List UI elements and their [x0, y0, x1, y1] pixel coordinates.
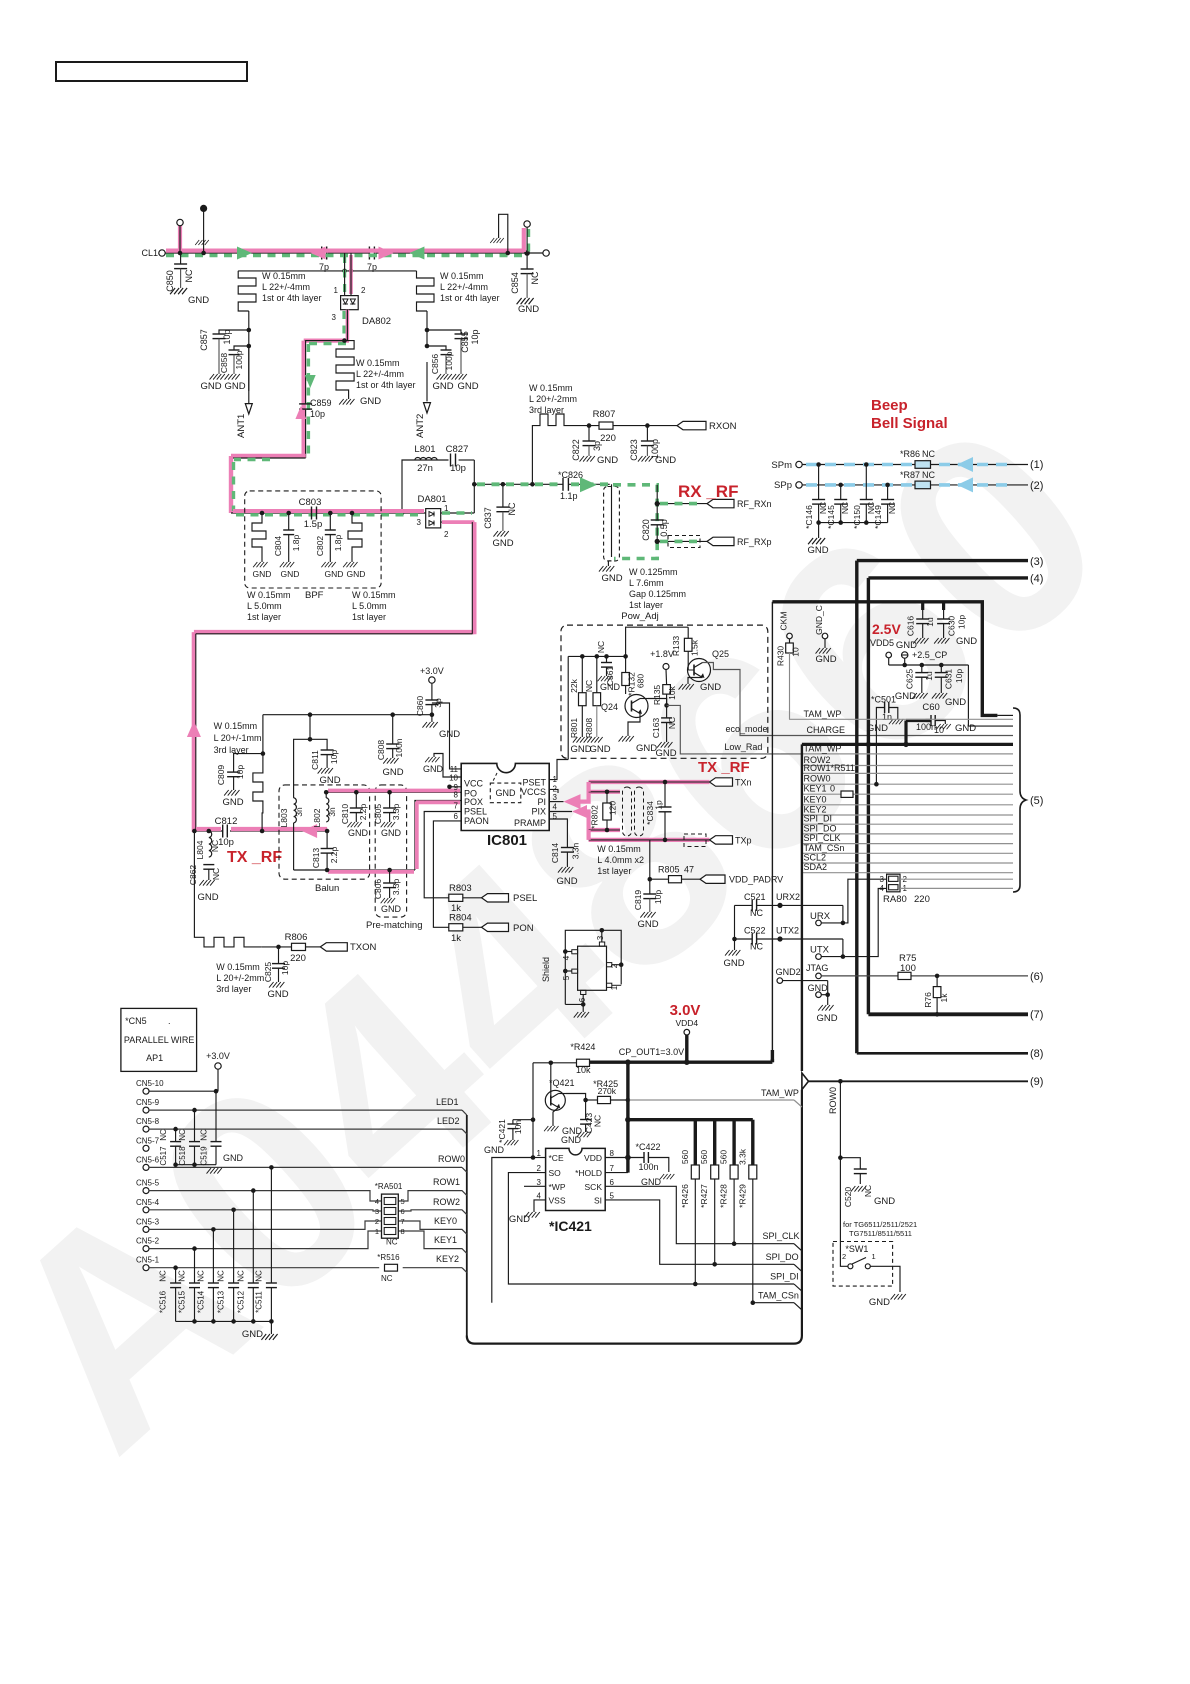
svg-text:C519: C519 — [200, 1146, 209, 1166]
title box — [56, 62, 247, 81]
svg-text:TX _RF: TX _RF — [227, 849, 282, 866]
svg-text:Q24: Q24 — [601, 702, 618, 712]
svg-text:*C515: *C515 — [178, 1290, 187, 1313]
wire IC421 pin1 — [533, 1157, 546, 1159]
ic IC421 — [546, 1148, 606, 1210]
svg-text:L804: L804 — [195, 840, 205, 859]
svg-text:8: 8 — [610, 1149, 615, 1158]
wire SW1 to gnd — [870, 1266, 900, 1292]
svg-text:Pow_Adj: Pow_Adj — [621, 611, 659, 622]
ic IC801 — [461, 763, 549, 830]
svg-text:C811: C811 — [310, 750, 320, 770]
svg-text:NC: NC — [596, 641, 606, 653]
wire SPI_CLK out — [734, 1243, 794, 1245]
svg-text:C837: C837 — [483, 507, 493, 529]
svg-text:3: 3 — [537, 1178, 542, 1187]
svg-text:C854: C854 — [510, 272, 520, 294]
svg-text:KEY0: KEY0 — [804, 794, 827, 804]
svg-text:PARALLEL WIRE: PARALLEL WIRE — [124, 1035, 195, 1045]
svg-text:PIX: PIX — [531, 807, 546, 817]
svg-text:SPI_DI: SPI_DI — [804, 814, 833, 824]
svg-text:C812: C812 — [215, 816, 238, 827]
ground C522 — [734, 939, 736, 950]
wire RA80 out rows — [900, 878, 1013, 880]
capacitor C423 — [585, 1100, 587, 1120]
svg-text:ANT1: ANT1 — [236, 414, 247, 438]
svg-text:6: 6 — [401, 1207, 405, 1216]
resistor R808 — [595, 654, 600, 659]
svg-text:SPI_CLK: SPI_CLK — [804, 833, 841, 843]
svg-text:560: 560 — [680, 1150, 690, 1164]
svg-text:TAM_WP: TAM_WP — [761, 1088, 799, 1098]
svg-text:1: 1 — [375, 1227, 379, 1236]
matching dashed TXp — [684, 834, 706, 847]
wire Q25 base — [687, 659, 689, 670]
svg-text:10p: 10p — [450, 463, 466, 474]
svg-text:R807: R807 — [593, 409, 616, 420]
svg-text:220: 220 — [290, 953, 306, 964]
svg-text:*CE: *CE — [549, 1153, 564, 1163]
wire PSET feed vertical — [567, 656, 569, 759]
svg-text:PI: PI — [537, 797, 546, 807]
svg-text:Shield: Shield — [541, 957, 551, 982]
svg-text:L 20+/-2mm: L 20+/-2mm — [216, 973, 264, 983]
svg-text:NC: NC — [593, 1115, 603, 1127]
wire URX net — [842, 905, 844, 923]
pad TXON — [320, 943, 347, 951]
svg-text:CKM: CKM — [779, 612, 789, 631]
node R76 — [935, 974, 940, 979]
svg-text:GND: GND — [867, 723, 888, 734]
wire IC421 pin7 — [605, 1172, 628, 1174]
svg-text:3n: 3n — [327, 807, 337, 817]
wire KEY0 row — [149, 1221, 382, 1229]
svg-text:CHARGE: CHARGE — [807, 725, 846, 735]
wire ROW1 row — [149, 1191, 382, 1201]
svg-text:Low_Rad: Low_Rad — [724, 742, 762, 752]
svg-text:SPp: SPp — [774, 480, 792, 491]
wire C811 L803 net — [294, 715, 310, 798]
svg-text:C805: C805 — [373, 804, 383, 825]
svg-text:6: 6 — [454, 812, 459, 821]
wire RX main green line — [474, 483, 563, 485]
svg-text:1st layer: 1st layer — [247, 612, 281, 622]
svg-text:KEY1: KEY1 — [434, 1235, 457, 1245]
svg-text:*R428: *R428 — [719, 1184, 729, 1208]
pad TXp — [710, 836, 733, 844]
svg-text:ROW0: ROW0 — [804, 774, 831, 784]
capacitor C820 — [656, 485, 658, 520]
capacitor C149 — [885, 483, 890, 488]
svg-text:C820: C820 — [641, 519, 651, 541]
svg-text:RF_RXn: RF_RXn — [737, 499, 772, 509]
wire PSET net — [549, 760, 568, 780]
via pad left — [178, 224, 182, 252]
svg-text:GND: GND — [360, 396, 381, 407]
svg-text:100p: 100p — [234, 350, 244, 369]
wire BPF line — [231, 512, 426, 514]
svg-text:C810: C810 — [340, 804, 350, 825]
svg-text:GND: GND — [723, 958, 744, 969]
wire thick 2.5V feed — [772, 602, 997, 716]
svg-text:GND: GND — [637, 919, 658, 930]
wire Q421 collector R425 — [559, 1093, 567, 1095]
svg-text:W 0.15mm: W 0.15mm — [597, 844, 641, 854]
svg-text:CN5-8: CN5-8 — [136, 1117, 160, 1126]
svg-text:URX2: URX2 — [776, 892, 800, 902]
node ANT1 branch — [247, 328, 252, 333]
svg-text:7: 7 — [610, 1164, 615, 1173]
capacitor C834 — [664, 782, 666, 807]
node C822 — [587, 423, 592, 428]
resistor R135 — [666, 685, 668, 706]
svg-text:1.1p: 1.1p — [560, 491, 578, 501]
wire balun top rail pink — [326, 791, 461, 793]
svg-text:CN5-6: CN5-6 — [136, 1155, 160, 1164]
wire IC421 pin5 SI — [605, 1200, 715, 1264]
svg-text:4: 4 — [375, 1197, 379, 1206]
svg-text:DA802: DA802 — [362, 316, 391, 327]
pad RF_RXn — [707, 499, 734, 507]
svg-text:(6): (6) — [1030, 971, 1043, 983]
resistor R132 — [625, 656, 627, 672]
svg-text:GND: GND — [655, 748, 676, 759]
svg-text:(4): (4) — [1030, 573, 1043, 585]
svg-text:R801: R801 — [569, 718, 579, 739]
svg-text:C859: C859 — [310, 398, 332, 408]
svg-text:PON: PON — [513, 923, 534, 934]
wire ROW0 row — [149, 1166, 462, 1168]
svg-text:NC: NC — [584, 680, 594, 692]
wire R429 down — [752, 1179, 754, 1303]
svg-text:3.0V: 3.0V — [670, 1002, 701, 1019]
arrow pink up — [295, 406, 306, 419]
pad PON — [482, 923, 509, 931]
svg-text:.: . — [168, 1016, 171, 1026]
svg-text:C809: C809 — [216, 765, 226, 786]
node meander RX — [530, 482, 535, 487]
bpf stub right — [350, 511, 355, 516]
svg-text:1k: 1k — [451, 933, 461, 944]
svg-text:1u: 1u — [925, 617, 935, 627]
svg-text:NC: NC — [887, 502, 897, 514]
svg-text:GND: GND — [457, 381, 478, 392]
svg-text:*R424: *R424 — [570, 1042, 595, 1052]
wire VDD_PADRV net — [649, 840, 651, 879]
wire Q25 emitter gnd — [688, 678, 703, 685]
meander left 22mm — [237, 270, 239, 272]
svg-text:4: 4 — [537, 1192, 542, 1201]
svg-text:CN5-2: CN5-2 — [136, 1237, 160, 1246]
svg-text:GND: GND — [700, 682, 721, 693]
wire KEY2 row — [149, 1267, 379, 1269]
svg-text:22k: 22k — [569, 678, 579, 692]
svg-text:C522: C522 — [744, 926, 766, 936]
svg-text:CN5-4: CN5-4 — [136, 1198, 160, 1207]
wire Q24 collector — [640, 698, 648, 700]
wire bus row TAM_WP — [802, 753, 1013, 755]
wire thick VDD vertical — [626, 1062, 629, 1172]
svg-text:RXON: RXON — [709, 421, 737, 432]
wire IC421 pin4 gnd — [534, 1200, 546, 1212]
svg-text:C625: C625 — [905, 669, 915, 690]
wire bus row TAM_WP — [789, 718, 1013, 720]
svg-text:5: 5 — [401, 1197, 405, 1206]
svg-text:RA80: RA80 — [883, 894, 907, 905]
svg-text:*R86: *R86 — [900, 449, 920, 459]
wire SPm line — [802, 464, 915, 466]
capacitor C823 — [646, 426, 648, 441]
wire DA801 to TX vertical — [472, 522, 476, 634]
svg-text:C823: C823 — [629, 439, 639, 461]
svg-text:GND2: GND2 — [776, 967, 801, 977]
svg-text:C804: C804 — [273, 536, 283, 557]
wire bus row KEY0 — [802, 804, 1013, 806]
meander right 22mm — [417, 271, 435, 311]
resistor R75 — [898, 972, 911, 979]
svg-text:1.8p: 1.8p — [291, 534, 301, 551]
arrow pink left — [311, 247, 326, 260]
svg-text:*R516: *R516 — [377, 1253, 400, 1262]
svg-text:W 0.15mm: W 0.15mm — [529, 383, 573, 393]
svg-text:GND: GND — [347, 569, 366, 579]
wire IC801 pin10 gnd — [434, 754, 461, 778]
svg-text:GND: GND — [348, 828, 369, 838]
wire JTAG R75 line — [821, 975, 898, 977]
wire C511-516 gnd bus — [176, 1320, 272, 1322]
resistor R805 — [669, 876, 682, 883]
svg-text:1: 1 — [334, 286, 339, 295]
wire thick line 8 — [857, 1052, 1028, 1055]
svg-text:*R427: *R427 — [699, 1184, 709, 1208]
terminal ANT1 — [248, 346, 250, 404]
capacitor C630 — [942, 602, 945, 610]
capacitor C809 — [234, 754, 263, 773]
wire bus row ROW2 — [802, 765, 1013, 767]
capacitor C810 — [354, 790, 359, 795]
via pad right — [522, 228, 526, 252]
svg-text:C814: C814 — [550, 843, 560, 864]
svg-text:GND: GND — [561, 1135, 582, 1145]
svg-text:R805: R805 — [658, 865, 680, 875]
wire R426 down — [694, 1179, 696, 1284]
resistor R802 — [603, 803, 611, 820]
wire ROW0 to SW1 — [840, 1158, 848, 1267]
resistor R87 — [915, 481, 931, 489]
svg-text:*SW1: *SW1 — [845, 1244, 868, 1254]
capacitor C422 — [625, 1155, 631, 1161]
wire trunk bottom jog — [231, 454, 306, 458]
capacitor C862 — [203, 864, 214, 866]
terminal ANT2 — [426, 362, 428, 401]
svg-text:*HOLD: *HOLD — [575, 1168, 602, 1178]
svg-text:10p: 10p — [653, 890, 663, 904]
svg-text:NC: NC — [236, 1270, 245, 1282]
svg-text:PAON: PAON — [464, 816, 489, 826]
svg-text:C520: C520 — [843, 1187, 853, 1208]
svg-text:L 5.0mm: L 5.0mm — [352, 601, 387, 611]
meander 20+/-1mm — [262, 715, 264, 754]
svg-text:NC: NC — [667, 717, 677, 729]
svg-text:*C150: *C150 — [852, 505, 862, 529]
svg-text:C803: C803 — [299, 497, 322, 508]
svg-text:680: 680 — [636, 674, 646, 688]
wire GND2 line — [783, 980, 828, 982]
svg-text:*C826: *C826 — [558, 470, 583, 480]
capacitor C850 — [180, 253, 182, 264]
svg-text:eco_mode: eco_mode — [726, 724, 768, 734]
node UTX2 — [777, 936, 782, 941]
wire PRAMP to C814 — [549, 819, 567, 848]
svg-text:VDD4: VDD4 — [675, 1018, 698, 1028]
pow_adj dashed box — [561, 625, 768, 758]
node DA802 pin2 — [349, 269, 354, 274]
svg-text:3: 3 — [332, 313, 337, 322]
svg-text:*C514: *C514 — [196, 1290, 205, 1313]
svg-text:10k: 10k — [576, 1065, 591, 1075]
svg-text:*Q421: *Q421 — [549, 1078, 575, 1088]
svg-text:R430: R430 — [776, 646, 786, 667]
svg-text:*C421: *C421 — [497, 1119, 507, 1143]
wire bus row 744.4 — [802, 743, 1013, 746]
svg-text:VCCS: VCCS — [521, 787, 546, 797]
svg-text:ROW2: ROW2 — [433, 1197, 460, 1207]
wire SPI_DO out — [715, 1263, 794, 1265]
svg-text:1u: 1u — [924, 671, 934, 681]
svg-text:TXn: TXn — [735, 778, 752, 788]
svg-text:ROW1*R511: ROW1*R511 — [804, 763, 855, 773]
svg-text:(3): (3) — [1030, 556, 1043, 568]
wire bus row SDA2 — [802, 872, 1013, 874]
svg-text:GND: GND — [601, 573, 622, 584]
wire DA801 pin2 pink — [441, 521, 475, 523]
svg-text:10p: 10p — [310, 409, 325, 419]
svg-text:L 22+/-4mm: L 22+/-4mm — [440, 282, 488, 292]
svg-text:ANT2: ANT2 — [415, 414, 426, 438]
svg-text:1: 1 — [537, 1149, 542, 1158]
svg-text:*R426: *R426 — [680, 1184, 690, 1208]
svg-text:10p: 10p — [218, 837, 234, 848]
svg-text:DA801: DA801 — [417, 494, 446, 505]
wire 3V to C811 net — [263, 714, 432, 716]
svg-text:C517: C517 — [159, 1146, 168, 1166]
svg-text:NC: NC — [840, 502, 850, 514]
svg-text:560: 560 — [719, 1150, 729, 1164]
resistor R86 — [915, 461, 931, 469]
svg-text:*C513: *C513 — [217, 1290, 226, 1313]
wire bus row KEY2 — [802, 814, 1013, 816]
node R135 C163 — [664, 703, 669, 708]
svg-text:CN5-10: CN5-10 — [136, 1079, 164, 1088]
inductor L802 — [326, 798, 329, 822]
svg-text:100n: 100n — [394, 738, 404, 757]
arrow blue SPm — [957, 457, 973, 472]
svg-text:*CN5: *CN5 — [125, 1016, 147, 1026]
svg-text:SPI_DI: SPI_DI — [770, 1272, 799, 1282]
pad RXON — [677, 421, 706, 429]
svg-text:6: 6 — [578, 997, 587, 1002]
svg-text:GND: GND — [325, 569, 344, 579]
prematching dashed box — [375, 785, 406, 917]
wire thick vertical 4 — [867, 578, 870, 1014]
resistor R807 — [599, 422, 613, 429]
svg-text:KEY1: KEY1 — [804, 784, 827, 794]
svg-text:GND: GND — [956, 636, 977, 647]
wire ROW2 row — [149, 1210, 382, 1211]
capacitor C802 — [328, 511, 333, 516]
svg-text:LED2: LED2 — [437, 1116, 460, 1126]
capacitor C519 — [215, 1091, 217, 1141]
wire bus row 794.2 — [802, 793, 1013, 795]
capacitor C150 — [864, 462, 869, 467]
svg-text:(1): (1) — [1030, 459, 1043, 471]
svg-text:SI: SI — [594, 1196, 602, 1206]
wire stub-gnd right — [499, 214, 508, 253]
svg-text:1n: 1n — [882, 712, 892, 722]
svg-text:CP_OUT1=3.0V: CP_OUT1=3.0V — [619, 1047, 684, 1057]
bpf stub left — [260, 511, 265, 516]
svg-text:C60: C60 — [922, 702, 939, 713]
svg-text:NC: NC — [200, 1129, 209, 1141]
svg-text:ROW0: ROW0 — [438, 1154, 465, 1164]
wire 2.5 node line — [889, 664, 969, 666]
svg-text:1.5p: 1.5p — [304, 519, 323, 530]
svg-text:2: 2 — [444, 530, 449, 539]
capacitor C806 — [387, 868, 392, 873]
svg-text:GND: GND — [253, 569, 272, 579]
svg-text:NC: NC — [217, 1270, 226, 1282]
svg-text:PSEL: PSEL — [513, 893, 537, 904]
wire +2.5 right vertical — [968, 665, 1013, 726]
diode array DA801 — [426, 509, 441, 528]
svg-text:10p: 10p — [954, 669, 964, 683]
svg-text:NC: NC — [381, 1274, 393, 1283]
wire inter-meander line — [238, 270, 416, 272]
svg-text:10p: 10p — [329, 750, 339, 764]
arrow pink right — [379, 247, 394, 260]
capacitor C146 — [816, 462, 821, 467]
svg-text:NC: NC — [922, 449, 935, 459]
svg-text:CN5-7: CN5-7 — [136, 1136, 160, 1145]
wire ROW0 drop — [838, 1079, 843, 1084]
wire IC801 pin11 pin9 — [432, 703, 461, 769]
svg-text:C850: C850 — [165, 270, 175, 292]
capacitor C837 — [502, 484, 504, 507]
capacitor C616 — [921, 602, 924, 610]
svg-text:NC: NC — [159, 1129, 168, 1141]
capacitor C814 — [561, 847, 574, 849]
wire R427 down — [714, 1179, 716, 1264]
svg-text:2.5V: 2.5V — [872, 621, 901, 637]
svg-text:W 0.15mm: W 0.15mm — [262, 271, 306, 281]
svg-text:(2): (2) — [1030, 480, 1043, 492]
svg-text:10n: 10n — [513, 1120, 523, 1134]
svg-text:C858: C858 — [219, 353, 229, 374]
svg-text:10k: 10k — [667, 685, 677, 699]
wire IC421 pin8 — [605, 1157, 628, 1159]
capacitor C421 — [513, 1119, 533, 1121]
capacitor *C511 — [270, 1167, 272, 1283]
svg-text:*R802: *R802 — [590, 805, 600, 829]
svg-text:GND: GND — [197, 892, 218, 903]
svg-text:1st or 4th layer: 1st or 4th layer — [356, 380, 416, 390]
wire IC421 pin3 stub — [524, 1185, 546, 1187]
wire CP_OUT1 thick — [589, 1060, 773, 1063]
svg-text:3.3p: 3.3p — [391, 878, 401, 895]
svg-text:C631: C631 — [944, 669, 954, 690]
svg-text:VDD: VDD — [584, 1153, 602, 1163]
wire CN5-10 net — [149, 1090, 218, 1092]
